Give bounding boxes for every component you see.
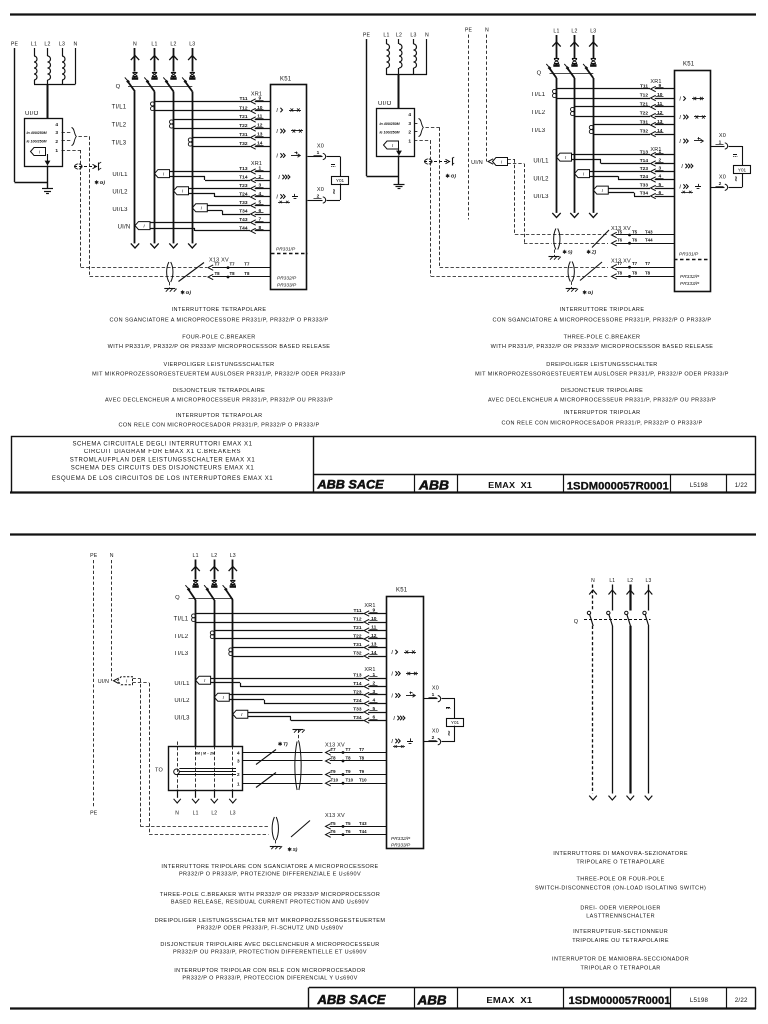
svg-text:G): G) [100,180,106,186]
svg-text:S): S) [568,250,573,256]
svg-text:EMAX X1: EMAX X1 [486,995,532,1005]
node T43 [628,234,631,237]
arrow to ground in UI/O [398,148,400,154]
page 1 bottom border [10,491,756,493]
svg-text:TRIPOLAIRE OU TETRAPOLAIRE: TRIPOLAIRE OU TETRAPOLAIRE [572,938,669,944]
svg-text:L3: L3 [189,42,195,48]
svg-text:X13 XV: X13 XV [325,813,345,819]
svg-text:PE: PE [11,42,19,48]
breaker pole N top [134,48,136,72]
wire UI/N out2 [508,163,525,165]
svg-text:10: 10 [257,105,263,111]
svg-text:2: 2 [408,130,411,136]
svg-text:PR333/P: PR333/P [391,843,411,849]
page 2 bottom border [10,1007,756,1009]
node T8 [628,275,631,278]
svg-text:T7: T7 [244,262,250,267]
wire PE vertical [14,48,16,182]
inductor L3 [62,56,65,80]
svg-text:THREE-POLE C.BREAKER: THREE-POLE C.BREAKER [564,335,641,341]
svg-text:T7: T7 [359,747,365,752]
svg-text:11: 11 [657,101,662,107]
svg-text:L3: L3 [646,578,652,584]
breaker pole L2 top [214,560,216,580]
svg-text:T24: T24 [239,191,248,197]
pole L1 bottom arrow [150,243,158,248]
svg-text:INTERRUPTOR DE MANIOBRA-SECCIO: INTERRUPTOR DE MANIOBRA-SECCIONADOR [552,957,689,963]
svg-text:G): G) [588,290,594,296]
coil Y01 [332,177,349,185]
svg-text:L2: L2 [396,33,402,39]
wire pole L3 [648,626,650,794]
wire bus to UI/O box [47,84,49,118]
svg-text:CON SGANCIATORE A MICROPROCESS: CON SGANCIATORE A MICROPROCESSORE PR331/… [110,318,329,324]
wire X0-1 to Y01 [327,156,341,158]
ct TI/L1 [192,614,196,618]
voltage sensor UI/N [135,222,150,230]
wire T21 [575,106,651,108]
wire pin2 stub [62,140,71,142]
svg-text:L2: L2 [571,29,577,35]
wire Y01 to X0-2 [454,726,456,742]
isolating switch [592,230,609,248]
breaker pole L3 top [593,35,595,58]
svg-text:Z): Z) [591,250,597,256]
sensor box UI/O [377,109,415,157]
svg-text:T5: T5 [617,229,623,234]
svg-text:T14: T14 [353,681,362,687]
dc mark [331,164,335,166]
svg-text:UI/O: UI/O [25,111,39,117]
svg-text:T23: T23 [353,689,362,695]
label *G) [584,290,586,294]
breaker pole L3 top [232,560,234,580]
svg-text:ABB: ABB [418,477,449,492]
wire T32 [233,656,364,658]
svg-text:N: N [425,33,429,39]
connector external G [74,166,97,168]
disconnector pole L3 [648,585,650,611]
svg-text:3: 3 [408,121,411,127]
svg-text:TI/L1: TI/L1 [112,105,127,111]
residual transformer TO box [169,747,243,791]
drawout contact [272,817,274,840]
svg-text:14: 14 [371,650,377,656]
svg-text:2: 2 [237,772,240,777]
ct TI/L2 [170,120,174,124]
svg-text:T13: T13 [353,672,362,678]
svg-text:T31: T31 [239,132,248,138]
title block page 1 [12,437,314,493]
pole L2 bottom arrow [169,243,177,248]
svg-text:1: 1 [55,148,58,154]
wire pole L1 [612,626,614,794]
svg-text:PR331/P: PR331/P [276,247,296,253]
title block page 2 [309,987,756,989]
svg-text:K51: K51 [396,588,408,594]
svg-text:5: 5 [658,182,661,188]
wire L2 drop [47,48,49,56]
ct TI/L2 [210,631,214,635]
svg-text:T7: T7 [215,262,221,267]
svg-text:N: N [74,42,78,48]
wire T11 [557,88,651,90]
svg-text:8: 8 [258,225,261,231]
wire PE vertical [366,39,368,176]
svg-text:6: 6 [258,208,261,214]
svg-text:T12: T12 [353,616,362,622]
svg-text:FOUR-POLE C.BREAKER: FOUR-POLE C.BREAKER [182,335,255,341]
wire brace to T8 riser [79,136,90,138]
wire T31 [593,124,650,126]
svg-text:T9: T9 [346,769,352,774]
svg-text:T): T) [283,742,288,748]
drawout contact [167,262,169,282]
voltage sensor UI/L3 [192,204,207,212]
svg-text:T13: T13 [640,149,649,155]
schematic: three-pole breaker with residual current protection [90,553,463,853]
svg-text:PR332/P: PR332/P [277,276,297,282]
breaker pole L1 top [556,35,558,58]
wire riser x431 [430,141,432,277]
svg-text:N: N [485,28,489,34]
voltage sensor UI/L3 [233,710,248,718]
svg-text:N: N [591,578,595,584]
coil Y01 [447,719,464,727]
svg-text:T44: T44 [359,829,367,834]
svg-text:LASTTRENNSCHALTER: LASTTRENNSCHALTER [586,914,655,920]
svg-text:T7: T7 [645,261,651,266]
breaker pole L2 top [173,48,175,72]
breaker pole L2 top [574,35,576,58]
svg-text:T21: T21 [239,114,248,120]
node T9 [342,773,345,776]
node T43 [342,825,345,828]
svg-text:L3: L3 [230,811,236,817]
pole L3 bottom arrow [589,213,597,218]
svg-text:ABB: ABB [417,992,447,1007]
svg-text:12: 12 [371,633,377,639]
wire X0-1 to Y01 [729,146,743,148]
wire T22 [174,128,251,130]
svg-text:N: N [133,42,137,48]
wire T7 dashed [81,267,207,269]
svg-text:1: 1 [237,782,240,787]
svg-text:ABB SACE: ABB SACE [316,993,386,1007]
svg-text:T32: T32 [239,141,248,147]
ct TI/L3 [229,648,233,652]
node T44 [628,242,631,245]
wire T7 into K51 [208,265,213,270]
svg-text:1SDM000057R0001: 1SDM000057R0001 [567,481,669,493]
svg-text:L3: L3 [230,553,236,559]
svg-text:L1: L1 [31,42,37,48]
svg-text:L1: L1 [609,578,615,584]
svg-text:L3: L3 [59,42,65,48]
svg-text:PR332/P O PR333/P, PROTEZIONE: PR332/P O PR333/P, PROTEZIONE DIFFERENZI… [179,872,361,878]
svg-text:INTERRUTTORE TETRAPOLARE: INTERRUTTORE TETRAPOLARE [172,307,267,313]
svg-text:T9: T9 [359,769,365,774]
svg-text:L3: L3 [410,33,416,39]
svg-text:2: 2 [719,181,722,187]
svg-text:1SDM000057R0001: 1SDM000057R0001 [569,995,671,1007]
wire T7 into K51 [612,265,617,270]
svg-text:INTERRUPTOR TRIPOLAR CON RELE: INTERRUPTOR TRIPOLAR CON RELE CON MICROP… [174,968,366,974]
svg-text:N: N [110,553,114,559]
svg-text:UI/L2: UI/L2 [112,190,128,196]
wire pin3 stub [62,132,71,134]
release section separator [271,253,308,255]
svg-text:L1: L1 [193,553,199,559]
svg-text:9: 9 [658,83,661,89]
arrow to ground in UI/O [47,154,49,163]
svg-text:UI/L2: UI/L2 [174,698,190,704]
svg-text:Ie 100/250M: Ie 100/250M [380,130,401,134]
inductor L3 [414,44,417,68]
svg-text:PE: PE [90,811,98,817]
node T7 [628,266,631,269]
svg-text:Y01: Y01 [738,167,747,172]
svg-text:TI/L2: TI/L2 [174,634,189,640]
svg-text:In 400/250M: In 400/250M [380,122,401,126]
inductor L2 [48,56,51,80]
svg-text:L1: L1 [193,811,199,817]
svg-text:1: 1 [658,149,661,155]
dc mark [733,154,737,156]
svg-text:T10: T10 [359,778,367,783]
svg-text:DISJONCTEUR TRIPOLAIRE: DISJONCTEUR TRIPOLAIRE [561,388,643,394]
ground below drawout [275,840,277,846]
svg-text:T24: T24 [353,698,362,704]
disconnector pole N [592,585,594,611]
label *G) [447,174,449,178]
sensor box UI/O [25,119,63,167]
wire K51 to X0-1 [711,146,725,148]
svg-text:INTERRUPTEUR-SECTIONNEUR: INTERRUPTEUR-SECTIONNEUR [573,929,668,935]
svg-text:4: 4 [237,750,240,755]
page 2 top border [10,533,756,535]
svg-text:T8: T8 [617,270,623,275]
drawout contact [554,229,556,250]
pole N bottom arrow [131,243,139,248]
svg-text:UI/O: UI/O [378,101,392,107]
svg-text:T21: T21 [640,101,649,107]
svg-text:K51: K51 [280,77,292,83]
ac mark [736,177,737,181]
wire Y01 to X0-2 [742,173,744,187]
svg-text:TI/L1: TI/L1 [174,617,189,623]
relay K51 box [675,71,711,292]
svg-text:UI/L1: UI/L1 [174,681,190,687]
wire X0-1 to Y01 [442,698,456,700]
svg-text:AVEC DECLENCHEUR A MICROPROCES: AVEC DECLENCHEUR A MICROPROCESSEUR PR331… [105,398,333,404]
svg-text:T23: T23 [239,183,248,189]
wire riser x439 [439,128,441,268]
svg-text:WITH PR331/P, PR332/P OR PR333: WITH PR331/P, PR332/P OR PR333/P MICROPR… [108,344,331,350]
trip linkage [550,73,594,75]
ct TI/L3 [589,125,593,129]
svg-text:T5: T5 [331,821,337,826]
svg-text:UI/N: UI/N [118,225,131,231]
wire pole L2 [214,600,216,746]
ct TI/L1 [151,102,155,106]
svg-text:N: N [175,811,179,817]
svg-text:DREIPOLIGER LEISTUNGSSCHALTER: DREIPOLIGER LEISTUNGSSCHALTER MIT MIKROP… [155,918,386,924]
svg-text:K51: K51 [683,62,695,68]
wire L1 drop [386,39,388,44]
svg-text:TI/L3: TI/L3 [112,141,127,147]
svg-text:Q: Q [116,84,121,90]
svg-text:T8: T8 [215,271,221,276]
wire N drop [426,39,428,75]
svg-text:PR332/P: PR332/P [391,836,411,842]
svg-text:SCHEMA CIRCUITALE DEGLI INTERR: SCHEMA CIRCUITALE DEGLI INTERRUTTORI EMA… [72,441,252,447]
coil Y01 [734,166,751,174]
ground via drawout [169,282,171,288]
svg-text:MIT MIKROPROZESSORGESTEUERTEM: MIT MIKROPROZESSORGESTEUERTEM AUSLÖSER P… [475,371,729,378]
conductor L3 through TO [232,746,234,790]
svg-text:T10: T10 [346,778,354,783]
svg-text:T8: T8 [359,755,365,760]
wire L3 drop [413,39,415,44]
label *T) [279,742,281,746]
wire N drop [75,48,77,84]
svg-text:L2: L2 [211,553,217,559]
voltage sensor UI/L1 [155,170,170,178]
svg-text:X0: X0 [317,187,324,193]
wire UI/N out1 [508,159,516,161]
svg-text:3M | M – 2M: 3M | M – 2M [195,752,216,756]
svg-text:T22: T22 [640,110,649,116]
label *G) [182,290,184,294]
wire star bus [34,84,76,86]
svg-text:T8: T8 [645,270,651,275]
svg-text:T34: T34 [353,715,362,721]
svg-text:T5: T5 [346,821,352,826]
svg-text:T23: T23 [640,166,649,172]
wire pin2 stub [414,131,418,133]
wire TO pin to T10 [243,783,323,785]
svg-text:L1: L1 [151,42,157,48]
wire T11 [196,613,364,615]
svg-text:1: 1 [372,672,375,678]
svg-text:UI/L1: UI/L1 [112,172,128,178]
svg-text:L1: L1 [383,33,389,39]
svg-text:UI/N: UI/N [98,679,109,685]
svg-text:PE: PE [465,28,473,34]
svg-text:2/22: 2/22 [735,997,748,1004]
svg-text:Y01: Y01 [336,178,345,183]
svg-text:TRIPOLARE O TETRAPOLARE: TRIPOLARE O TETRAPOLARE [576,860,664,866]
wire pole L3 [593,78,595,211]
svg-text:INTERRUPTOR TETRAPOLAR: INTERRUPTOR TETRAPOLAR [176,413,263,419]
svg-text:X0: X0 [719,174,726,180]
wire pole L2 [629,626,631,794]
wire T21 [174,119,251,121]
svg-text:Y01: Y01 [451,720,460,725]
svg-text:PR331/P: PR331/P [679,252,699,258]
svg-text:THREE-POLE OR FOUR-POLE: THREE-POLE OR FOUR-POLE [576,877,664,883]
wire N dashed [111,560,113,681]
svg-text:12: 12 [657,110,663,116]
node T8 [227,276,230,279]
svg-text:Q: Q [537,71,542,77]
wire T32 [593,134,650,136]
svg-text:T33: T33 [239,200,248,206]
svg-text:THREE-POLE C.BREAKER WITH PR33: THREE-POLE C.BREAKER WITH PR332/P OR PR3… [160,892,381,898]
svg-text:UI/L2: UI/L2 [533,177,549,183]
svg-text:In 400/250M: In 400/250M [27,131,48,135]
svg-text:CON RELE CON MICROPROCESADOR P: CON RELE CON MICROPROCESADOR PR331/P, PR… [501,421,702,427]
svg-text:Ie 100/250M: Ie 100/250M [27,140,48,144]
drawout contact [568,262,570,282]
svg-text:S): S) [293,847,298,853]
wire T8 into K51 [208,274,213,279]
breaker pole L1 top [195,560,197,580]
svg-text:AVEC DECLENCHEUR A MICROPROCES: AVEC DECLENCHEUR A MICROPROCESSEUR PR331… [488,398,716,404]
ct TI/L2 [571,107,575,111]
wire L3 drop [62,48,64,56]
svg-text:1: 1 [408,138,411,144]
svg-text:TI/L2: TI/L2 [531,110,546,116]
svg-text:T32: T32 [640,128,649,134]
svg-text:T31: T31 [353,642,362,648]
svg-text:T43: T43 [645,229,653,234]
svg-text:10: 10 [371,616,377,622]
svg-text:TO: TO [155,768,163,774]
wire pole L1 [154,92,156,239]
wire PE dashed [468,35,470,220]
svg-text:DREIPOLIGER LEISTUNGSSCHALTER: DREIPOLIGER LEISTUNGSSCHALTER [546,362,657,368]
svg-text:T43: T43 [359,821,367,826]
svg-text:4: 4 [55,122,58,128]
svg-text:T8: T8 [244,271,250,276]
svg-text:CON RELE CON MICROPROCESADOR P: CON RELE CON MICROPROCESADOR PR331/P, PR… [118,423,319,429]
svg-text:SCHEMA DES CIRCUITS DES DISJON: SCHEMA DES CIRCUITS DES DISJONCTEURS EMA… [71,466,255,472]
svg-text:T7: T7 [346,747,352,752]
wire N dashed [486,35,488,162]
svg-text:PR332/P O PR333/P, PROTECCION: PR332/P O PR333/P, PROTECCION DIFERENCIA… [182,976,357,982]
release section separator [674,259,711,261]
wire TO pin to T7 [243,752,323,754]
schematic: four-pole breaker with PR331/P-PR332/P-PR333/P release [11,42,349,297]
wire PE to ground node [15,182,48,184]
wire T22 [575,116,651,118]
label *G) [96,180,98,184]
breaker pole L1 top [154,48,156,72]
svg-text:G): G) [451,174,457,180]
isolating switch [580,262,602,281]
svg-text:L3: L3 [590,29,596,35]
svg-text:4: 4 [258,191,261,197]
svg-text:EMAX X1: EMAX X1 [488,480,532,490]
ground above drawout [293,729,304,731]
linkage dashed [584,619,651,621]
svg-text:6: 6 [658,190,661,196]
wire bus to UI/O box [398,75,400,108]
svg-text:INTERRUTTORE DI MANOVRA-SEZION: INTERRUTTORE DI MANOVRA-SEZIONATORE [553,851,688,857]
svg-text:ESQUEMA DE LOS CIRCUITOS DE LO: ESQUEMA DE LOS CIRCUITOS DE LOS INTERRUP… [52,476,273,482]
node T7 [227,266,230,269]
svg-text:T6: T6 [346,829,352,834]
wire pole L2 [574,78,576,211]
wire T7 dashed [440,267,608,269]
svg-text:UI/L1: UI/L1 [533,159,549,165]
isolating switch rows 4-3 [256,750,276,765]
svg-text:T6: T6 [617,238,623,243]
svg-text:SWITCH-DISCONNECTOR (ON-LOAD I: SWITCH-DISCONNECTOR (ON-LOAD ISOLATING S… [535,886,706,892]
wire riser x89 [89,137,91,278]
